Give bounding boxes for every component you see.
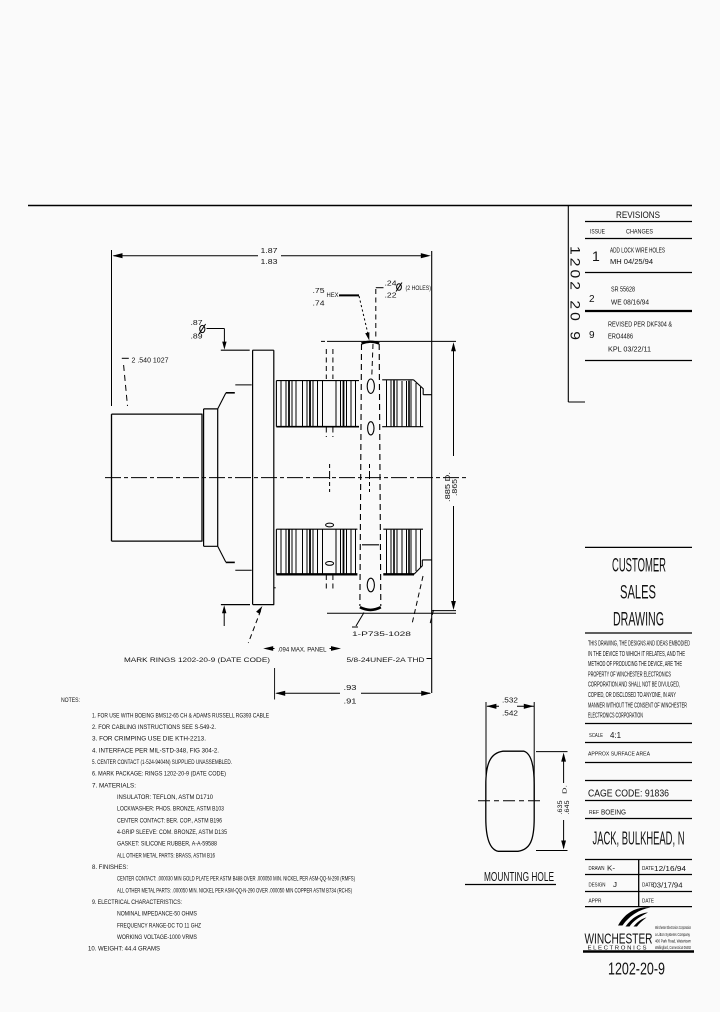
svg-text:4-GRIP SLEEVE: COM. BRONZE, AS: 4-GRIP SLEEVE: COM. BRONZE, ASTM D135 <box>117 829 227 836</box>
hex body top edge with extension <box>321 340 456 342</box>
title block heavy bottom line <box>583 950 694 953</box>
panel nut top edge <box>221 349 274 351</box>
mounting hole extension lines <box>486 702 534 800</box>
line under cage code <box>585 800 692 802</box>
height dim vertical <box>563 755 565 848</box>
svg-text:LOCKWASHER: PHOS. BRONZE, ASTM: LOCKWASHER: PHOS. BRONZE, ASTM B103 <box>117 806 224 813</box>
address block <box>655 925 691 950</box>
svg-text:MH 04/25/94: MH 04/25/94 <box>610 257 653 266</box>
svg-text:K-: K- <box>607 866 616 873</box>
top border rule <box>28 205 692 207</box>
empty row line <box>585 780 692 782</box>
svg-text:DESIGN: DESIGN <box>589 883 606 889</box>
cable barrel rectangle <box>112 414 203 541</box>
panel nut right face <box>273 350 275 604</box>
collar chamfer bottom tick <box>226 561 235 563</box>
svg-text:1-P735-1028: 1-P735-1028 <box>352 631 411 638</box>
dim .93 arrows <box>275 691 431 696</box>
signoff rows lines <box>585 875 692 892</box>
svg-text:ADD LOCK WIRE HOLES: ADD LOCK WIRE HOLES <box>610 246 665 255</box>
signoff divider <box>638 860 640 907</box>
svg-text:Wallingford, Connecticut 06492: Wallingford, Connecticut 06492 <box>655 945 691 950</box>
hidden hole end ellipse lower <box>326 562 334 566</box>
svg-text:.75: .75 <box>313 288 325 295</box>
svg-text:.865: .865 <box>452 479 459 496</box>
HEX leader arrow <box>365 332 369 340</box>
svg-text:APPROX SURFACE AREA: APPROX SURFACE AREA <box>588 752 650 758</box>
svg-text:J: J <box>613 882 617 889</box>
svg-text:GASKET: SILICONE RUBBER, A-A-5: GASKET: SILICONE RUBBER, A-A-59588 <box>117 841 217 848</box>
svg-text:400 Park Road, Watertown: 400 Park Road, Watertown <box>655 939 691 944</box>
mark rings leader dashed <box>248 611 260 644</box>
lock wire hole circle 1 <box>367 379 374 393</box>
strip inner tick <box>362 544 379 546</box>
hex body bottom edge with extension <box>327 612 456 614</box>
winchester logo swoosh <box>618 907 651 925</box>
svg-text:MANNER WITHOUT THE CONSENT OF: MANNER WITHOUT THE CONSENT OF WINCHESTER <box>588 700 687 709</box>
svg-text:JACK, BULKHEAD, N: JACK, BULKHEAD, N <box>593 829 685 849</box>
revisions table horizontal lines <box>585 222 692 361</box>
svg-text:D.: D. <box>563 784 569 794</box>
svg-text:2. FOR CABLING INSTRUCTIONS SE: 2. FOR CABLING INSTRUCTIONS SEE S-549-2. <box>92 724 216 731</box>
svg-text:.89: .89 <box>191 334 203 341</box>
thread band upper left <box>276 381 359 427</box>
signoff table top <box>585 859 692 861</box>
svg-text:MARK RINGS 1202-20-9 (DATE COD: MARK RINGS 1202-20-9 (DATE CODE) <box>124 657 270 664</box>
svg-text:5/8-24UNEF-2A THD: 5/8-24UNEF-2A THD <box>347 657 425 664</box>
panel nut hex corner line <box>252 350 254 604</box>
svg-text:1.83: 1.83 <box>261 257 278 266</box>
svg-text:METHOD OF PRODUCING THE DEVICE: METHOD OF PRODUCING THE DEVICE, ARE THE <box>588 659 682 668</box>
dim .885 .865 vertical <box>453 344 455 608</box>
svg-text:NOMINAL IMPEDANCE-50 OHMS: NOMINAL IMPEDANCE-50 OHMS <box>117 911 197 918</box>
small mark right of nut <box>274 587 276 589</box>
signoff bottom <box>585 906 692 908</box>
svg-text:4:1: 4:1 <box>610 730 621 740</box>
svg-text:3. FOR CRIMPING USE DIE KTH-22: 3. FOR CRIMPING USE DIE KTH-2213. <box>92 736 206 743</box>
mounting hole width dim line <box>487 705 534 707</box>
svg-text:DATE: DATE <box>642 899 654 905</box>
svg-text:WE 08/16/94: WE 08/16/94 <box>611 298 649 307</box>
body step upper edge <box>235 384 251 386</box>
HEX leader solid <box>339 294 359 296</box>
svg-text:SCALE: SCALE <box>589 733 603 739</box>
svg-text:.094 MAX. PANEL: .094 MAX. PANEL <box>278 647 327 654</box>
scale row line <box>585 723 692 725</box>
mounting hole centerline <box>478 800 542 802</box>
title block top line <box>585 546 692 548</box>
svg-text:CUSTOMER: CUSTOMER <box>612 556 666 577</box>
svg-text:1.87: 1.87 <box>261 246 278 255</box>
svg-text:1202 20 9: 1202 20 9 <box>568 246 583 343</box>
panel nut bottom edge <box>221 604 274 606</box>
lock wire hole circle 3 <box>367 578 374 592</box>
svg-text:.885 D.: .885 D. <box>445 472 452 502</box>
dim .885 bottom tick <box>432 610 456 612</box>
collar chamfer top <box>218 393 226 409</box>
dia symbol <box>199 324 206 334</box>
svg-text:(2 HOLES): (2 HOLES) <box>406 285 432 292</box>
svg-text:ALL OTHER METAL PARTS: BRASS,: ALL OTHER METAL PARTS: BRASS, ASTM B16 <box>117 852 215 859</box>
svg-text:2: 2 <box>589 294 595 305</box>
svg-text:KPL 03/22/11: KPL 03/22/11 <box>608 345 651 354</box>
svg-text:1. FOR USE WITH BOEING BMS12-6: 1. FOR USE WITH BOEING BMS12-65 CH & ADA… <box>92 712 269 719</box>
svg-text:.74: .74 <box>313 301 325 308</box>
svg-text:9: 9 <box>589 330 595 341</box>
height dim arrows <box>561 753 566 850</box>
svg-text:MOUNTING HOLE: MOUNTING HOLE <box>484 869 554 884</box>
thread band upper right <box>382 380 432 427</box>
label 2 .540 1027 <box>122 357 129 359</box>
svg-text:Winchester Electronics Corpora: Winchester Electronics Corporation <box>655 925 691 930</box>
overall dim left arrow <box>113 253 123 258</box>
svg-text:6. MARK PACKAGE: RINGS 1202-20: 6. MARK PACKAGE: RINGS 1202-20-9 (DATE C… <box>92 771 226 778</box>
svg-text:.645: .645 <box>564 800 571 814</box>
svg-text:ALL OTHER METAL PARTS: .000050: ALL OTHER METAL PARTS: .000050 MIN. NICK… <box>117 887 352 894</box>
svg-text:.22: .22 <box>385 293 397 300</box>
dim .885 arrows <box>451 342 456 610</box>
dim .93 .91 line <box>277 692 431 694</box>
line under scale <box>585 742 692 744</box>
width dim arrows <box>486 704 533 709</box>
svg-text:10. WEIGHT: 44.4 GRAMS: 10. WEIGHT: 44.4 GRAMS <box>88 946 160 953</box>
centerline horizontal <box>105 477 468 479</box>
svg-text:DRAWN: DRAWN <box>589 866 605 872</box>
svg-text:NOTES:: NOTES: <box>61 697 80 704</box>
collar chamfer top tick <box>226 392 235 394</box>
svg-text:BOEING: BOEING <box>601 808 626 817</box>
detail title underline <box>465 884 556 886</box>
svg-text:REF: REF <box>589 810 600 816</box>
svg-text:.532: .532 <box>502 696 518 705</box>
svg-text:CHANGES: CHANGES <box>626 230 653 236</box>
hidden lock hole lines upper <box>326 349 333 437</box>
svg-text:ISSUE: ISSUE <box>590 230 605 236</box>
mounting hole phantom strip right dashed <box>379 344 381 606</box>
svg-text:THIS DRAWING, THE DESIGNS AND: THIS DRAWING, THE DESIGNS AND IDEAS EMBO… <box>588 639 690 648</box>
svg-text:.542: .542 <box>502 709 518 718</box>
collar chamfer bottom <box>218 546 226 562</box>
holes label bracket <box>376 287 384 289</box>
svg-text:CAGE CODE: 91836: CAGE CODE: 91836 <box>588 788 669 800</box>
overall dim right arrow <box>421 253 431 258</box>
svg-text:CORPORATION AND SHALL NOT BE D: CORPORATION AND SHALL NOT BE DIVULGED, <box>588 680 680 689</box>
hidden lock hole lines lower <box>326 575 333 590</box>
HEX leader dotted diagonal <box>359 296 368 334</box>
lock wire hole circle 2 <box>368 422 374 435</box>
svg-text:INSULATOR: TEFLON, ASTM D1710: INSULATOR: TEFLON, ASTM D1710 <box>117 794 213 801</box>
line under ref <box>585 818 692 820</box>
svg-text:12/16/94: 12/16/94 <box>654 864 686 873</box>
revision zone left border <box>568 206 585 403</box>
notes block <box>61 697 355 953</box>
svg-text:4. INTERFACE PER MIL-STD-348,: 4. INTERFACE PER MIL-STD-348, FIG 304-2. <box>92 747 219 754</box>
svg-text:COPIED, OR DISCLOSED TO ANYONE: COPIED, OR DISCLOSED TO ANYONE, IN ANY <box>588 690 676 699</box>
line under DRAWING <box>585 632 692 634</box>
svg-text:DATE: DATE <box>642 866 654 872</box>
strip top cap <box>362 342 380 344</box>
svg-text:SALES: SALES <box>620 583 656 604</box>
overall dim line 1.87 <box>114 255 428 257</box>
svg-text:a Litton Systems Company: a Litton Systems Company <box>655 932 691 937</box>
svg-text:HEX: HEX <box>327 292 340 299</box>
strip bottom cap <box>360 607 381 610</box>
svg-text:7. MATERIALS:: 7. MATERIALS: <box>92 782 136 789</box>
line under surface area <box>585 762 692 764</box>
svg-text:03/17/94: 03/17/94 <box>653 881 683 890</box>
proprietary paragraph <box>588 639 690 720</box>
svg-text:REVISIONS: REVISIONS <box>616 210 660 221</box>
svg-text:FREQUENCY RANGE-DC TO 11 GHZ: FREQUENCY RANGE-DC TO 11 GHZ <box>117 922 201 929</box>
svg-text:WORKING VOLTAGE-1000 VRMS: WORKING VOLTAGE-1000 VRMS <box>117 934 197 941</box>
leader dashed to barrel corner <box>124 365 128 406</box>
mounting hole height extension ticks <box>536 752 568 851</box>
svg-text:8. FINISHES:: 8. FINISHES: <box>92 864 128 871</box>
svg-text:9. ELECTRICAL CHARACTERISTICS:: 9. ELECTRICAL CHARACTERISTICS: <box>92 899 182 906</box>
overall dim extension line left <box>111 250 113 406</box>
svg-text:ERO4486: ERO4486 <box>608 332 633 341</box>
svg-text:DRAWING: DRAWING <box>613 610 664 631</box>
right extension long vertical <box>431 251 433 693</box>
svg-text:2 .540 1027: 2 .540 1027 <box>132 358 169 365</box>
svg-text:.91: .91 <box>344 697 357 706</box>
svg-text:PROPERTY OF WINCHESTER ELECTRO: PROPERTY OF WINCHESTER ELECTRONICS <box>588 669 671 678</box>
label .094 MAX PANEL <box>263 646 273 651</box>
svg-text:1: 1 <box>592 248 600 264</box>
hole center tick right <box>369 464 371 492</box>
svg-text:.635: .635 <box>557 800 564 814</box>
leader for .87 .89 <box>207 329 225 344</box>
holes leader dashed <box>372 289 376 376</box>
leader dashed for thread callout <box>412 576 434 626</box>
svg-text:.93: .93 <box>344 683 357 692</box>
leader arrow onto nut top <box>222 342 226 350</box>
thread band lower left <box>276 529 357 574</box>
mounting hole obround <box>486 751 534 851</box>
leader for 1-P735-1028 <box>356 613 364 627</box>
body step lower edge <box>235 569 251 571</box>
svg-text:CENTER CONTACT: .000030 MIN GO: CENTER CONTACT: .000030 MIN GOLD PLATE P… <box>117 876 355 883</box>
svg-text:.24: .24 <box>385 281 397 288</box>
dim .93 ext line <box>274 668 276 700</box>
hole center tick left <box>329 464 331 492</box>
thread band lower right <box>383 529 431 574</box>
label 1-P735-1028 <box>352 626 358 628</box>
svg-text:IN THE DEVICE TO WHICH IT RELA: IN THE DEVICE TO WHICH IT RELATES, AND T… <box>588 649 685 658</box>
svg-text:APPR: APPR <box>589 899 602 905</box>
svg-text:ELECTRONICS CORPORATION: ELECTRONICS CORPORATION <box>588 711 643 720</box>
hidden hole end ellipse upper <box>326 523 334 527</box>
mark rings leader solid with arrow <box>223 609 225 626</box>
revisions table thick line <box>585 310 692 312</box>
collar ring <box>204 409 218 546</box>
svg-text:CENTER CONTACT: BER. COP., AST: CENTER CONTACT: BER. COP., ASTM B196 <box>117 817 222 824</box>
svg-text:REVISED PER DKF304 &: REVISED PER DKF304 & <box>608 320 672 329</box>
svg-text:5. CENTER CONTACT (1-524-9404N: 5. CENTER CONTACT (1-524-9404N) SUPPLIED… <box>92 759 232 766</box>
svg-text:1202-20-9: 1202-20-9 <box>608 959 665 979</box>
svg-text:SR 55628: SR 55628 <box>611 285 635 294</box>
mounting hole phantom strip left dashed <box>360 344 362 606</box>
